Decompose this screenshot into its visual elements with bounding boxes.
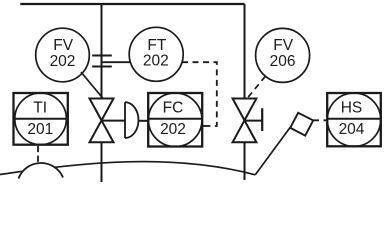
svg-text:204: 204 [339,121,365,138]
svg-text:202: 202 [160,121,186,138]
svg-text:201: 201 [27,121,53,138]
svg-text:202: 202 [50,53,76,70]
svg-text:HS: HS [341,100,363,117]
svg-text:202: 202 [143,53,169,70]
svg-text:FT: FT [147,37,166,54]
svg-text:FV: FV [273,37,293,54]
svg-text:TI: TI [33,100,47,117]
svg-text:206: 206 [270,53,296,70]
svg-text:FV: FV [53,37,73,54]
svg-text:FC: FC [163,100,184,117]
